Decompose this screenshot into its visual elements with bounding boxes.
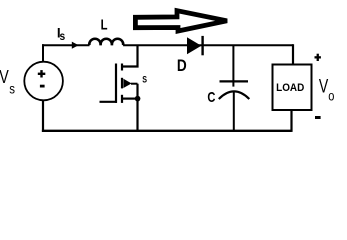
svg-text:C: C	[207, 88, 215, 105]
junction dot source	[135, 96, 141, 102]
MOSFET channel segment middle	[121, 78, 123, 89]
diode D triangle	[187, 37, 201, 54]
diode D cathode bar	[201, 36, 203, 55]
MOSFET gate bar	[115, 64, 117, 103]
wire right top stub	[292, 44, 294, 64]
capacitor C top plate	[220, 80, 249, 82]
wire left rail top stub	[42, 44, 44, 62]
voltage source Vs circle	[24, 62, 63, 101]
MOSFET source lead vertical	[136, 84, 138, 132]
MOSFET source stub	[122, 97, 138, 99]
MOSFET Q drain lead	[122, 45, 138, 66]
capacitor C top lead	[232, 45, 234, 86]
wire top rail left segment	[42, 44, 90, 46]
svg-text:S: S	[142, 73, 147, 84]
current arrow Is	[72, 42, 79, 49]
capacitor C bottom lead	[233, 92, 235, 132]
inductor L coil	[89, 39, 123, 45]
load box	[273, 65, 312, 111]
MOSFET channel segment bottom	[121, 95, 123, 103]
label plus output	[315, 54, 321, 61]
voltage source plus sign	[38, 70, 46, 77]
wire top rail right segment	[123, 44, 293, 46]
svg-text:V: V	[0, 68, 9, 88]
svg-text:L: L	[101, 16, 108, 33]
voltage source minus sign	[40, 85, 45, 88]
svg-text:o: o	[328, 88, 334, 103]
svg-text:s: s	[9, 80, 15, 96]
MOSFET channel segment top	[121, 64, 123, 71]
label minus output	[315, 116, 321, 119]
capacitor C curved plate	[219, 91, 250, 99]
svg-text:D: D	[177, 57, 187, 75]
wire bottom rail	[42, 130, 292, 132]
wire right bottom stub	[290, 110, 292, 132]
svg-text:LOAD: LOAD	[276, 82, 305, 93]
wire left rail bottom	[42, 100, 44, 132]
MOSFET body lead	[131, 83, 138, 85]
MOSFET gate lead	[100, 101, 118, 103]
power flow block arrow	[135, 11, 227, 31]
svg-text:s: s	[60, 30, 66, 43]
MOSFET body arrow	[123, 79, 131, 88]
